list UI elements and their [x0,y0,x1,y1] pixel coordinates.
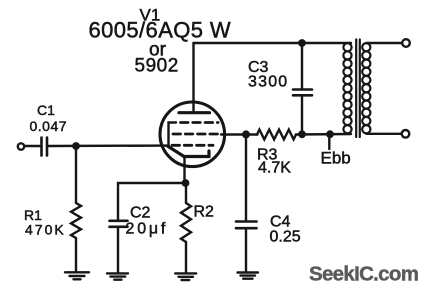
ground (C4) [238,273,259,279]
svg-text:4.7K: 4.7K [258,160,291,177]
node cathode junction [182,179,190,187]
wire cathode down [183,157,185,183]
input terminal [18,143,24,149]
wire C1 to grid [49,144,169,147]
tube V1 beam-plate bracket [169,123,177,147]
tube V1 cathode [168,146,210,157]
svg-text:5902: 5902 [135,56,179,77]
resistor R2 [181,203,191,242]
wire plate to top rail [192,43,194,112]
capacitor C1 [42,138,48,156]
wire R2 to ground [185,242,187,273]
svg-text:R2: R2 [194,204,215,221]
wire top rail [194,42,352,44]
wire junction to R2 [185,183,187,203]
tube V1 grid3 row [181,121,219,124]
svg-text:470K: 470K [25,222,66,238]
tube V1 control grid row [172,144,213,147]
svg-text:SeekIC.com: SeekIC.com [309,263,418,286]
svg-text:20μf: 20μf [126,221,169,238]
transformer T1 primary winding [343,43,351,133]
wire screen grid out [221,133,258,135]
output terminal top [402,39,410,47]
wire secondary bottom [366,133,401,135]
output terminal bottom [402,130,410,138]
wire C3 lower [301,96,303,134]
svg-text:0.047: 0.047 [30,118,68,134]
wire input to C1 [25,145,41,147]
resistor R1 [71,203,81,238]
wire R3 to transformer [296,133,351,136]
wire R1 to ground [75,238,77,272]
transformer T1 core [356,40,360,138]
wire C2 to ground [117,228,119,274]
svg-text:C2: C2 [130,205,151,222]
tube V1 plate [179,111,210,114]
ground (R2) [175,273,196,280]
wire junction to C2 [118,183,186,220]
ground (C2) [107,273,128,279]
svg-text:C1: C1 [37,102,55,118]
tube V1 screen grid row [173,133,220,136]
tube V1 envelope [160,102,225,167]
svg-text:Ebb: Ebb [321,149,351,168]
node grid/R1 junction [72,142,80,150]
wire junction to R1 [75,146,77,203]
node C3 bottom [298,130,306,138]
svg-text:0.25: 0.25 [270,229,301,246]
transformer T1 secondary winding [362,43,370,133]
svg-text:3300: 3300 [248,74,288,91]
wire C4 to ground [245,229,247,273]
resistor R3 [257,130,296,140]
wire C3 upper [301,43,303,89]
node top rail / C3 [298,39,306,47]
wire Ebb stub [328,136,330,149]
capacitor C4 [236,222,257,229]
node screen/C4 junction [242,130,250,138]
capacitor C2 [110,221,128,227]
wire secondary top [366,42,402,44]
wire C4 [245,135,247,221]
ground (R1) [65,272,89,279]
capacitor C3 [293,90,312,96]
node Ebb [326,130,334,138]
